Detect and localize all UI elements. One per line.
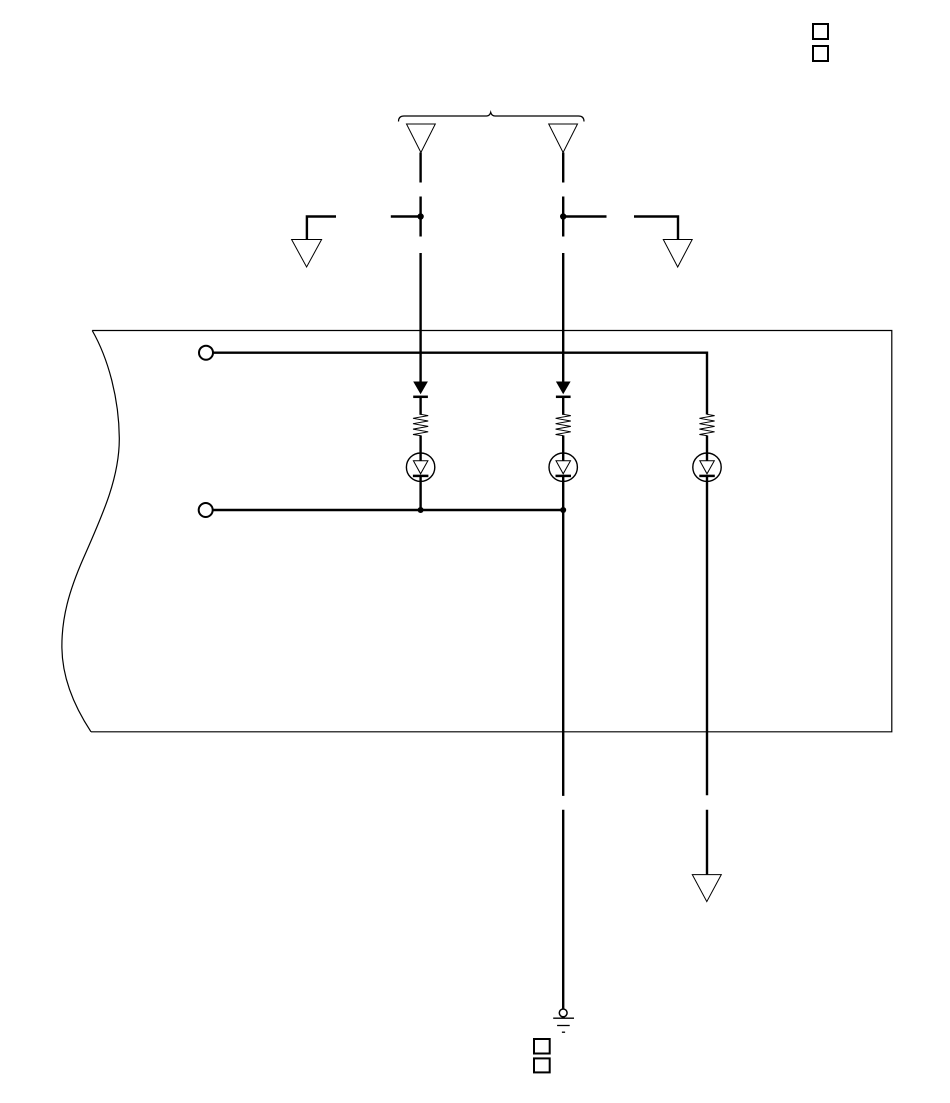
wire branch2 lower segment	[562, 810, 564, 1010]
wire branch2 segment c	[562, 253, 564, 383]
lamp LED1 (branch1)	[406, 453, 434, 481]
junction dot T2-branch2	[560, 507, 566, 513]
junction dot 1	[417, 213, 423, 219]
connector triangle top-right	[549, 124, 578, 153]
resistor R3 (branch3)	[699, 414, 714, 435]
corner wire right	[634, 217, 678, 240]
wire LED3 down through box	[706, 476, 708, 795]
wire LED1 to T2 bus	[419, 476, 421, 510]
note square bottom 2	[534, 1058, 550, 1072]
wire R2 to LED2	[562, 435, 564, 461]
lamp LED3 (branch3)	[693, 453, 721, 481]
ground bar 3	[562, 1031, 565, 1033]
wire branch3 lower segment	[706, 810, 708, 875]
connector triangle right	[663, 240, 692, 268]
module box outline	[91, 331, 892, 732]
wire branch2 dashed segment a	[562, 153, 564, 183]
terminal circle at ground	[559, 1009, 567, 1017]
note square top-right 2	[813, 46, 828, 61]
wire stub right of junction 2	[563, 215, 606, 217]
wire R1 to LED1	[419, 435, 421, 461]
wire T2 horizontal	[213, 509, 564, 511]
wire stub left of junction 1	[391, 215, 421, 217]
ground bar 2	[557, 1025, 570, 1027]
wire branch1 dashed segment b	[419, 197, 421, 237]
terminal T2	[199, 503, 213, 517]
wire branch1 segment c	[419, 253, 421, 383]
wire branch2 dashed segment b	[562, 197, 564, 237]
connector triangle left	[292, 240, 322, 268]
wire T1 horizontal	[213, 352, 707, 354]
junction dot 2	[560, 213, 566, 219]
resistor R2	[556, 414, 571, 435]
wire T1 corner down to branch3	[706, 352, 708, 415]
wire diode1 to R1	[419, 397, 421, 415]
diode CR1 (branch1)	[413, 382, 428, 395]
corner wire left	[307, 217, 336, 240]
connector triangle top-left	[407, 124, 436, 153]
wire branch1 dashed segment a	[419, 153, 421, 183]
wire LED2 down through box	[562, 476, 564, 796]
note square bottom 1	[534, 1039, 550, 1054]
resistor R1	[413, 414, 428, 435]
wire R3 to LED3	[706, 435, 708, 461]
note square top-right 1	[813, 24, 828, 39]
diode CR2 (branch2)	[556, 382, 571, 395]
wire diode2 to R2	[562, 397, 564, 415]
terminal T1	[199, 346, 213, 360]
module box torn left edge	[62, 331, 119, 732]
ground bar 1	[553, 1017, 574, 1019]
brace	[399, 112, 585, 121]
lamp LED2 (branch2)	[549, 453, 577, 481]
connector triangle bottom (branch3)	[692, 875, 721, 902]
junction dot T2-branch1	[418, 507, 424, 513]
